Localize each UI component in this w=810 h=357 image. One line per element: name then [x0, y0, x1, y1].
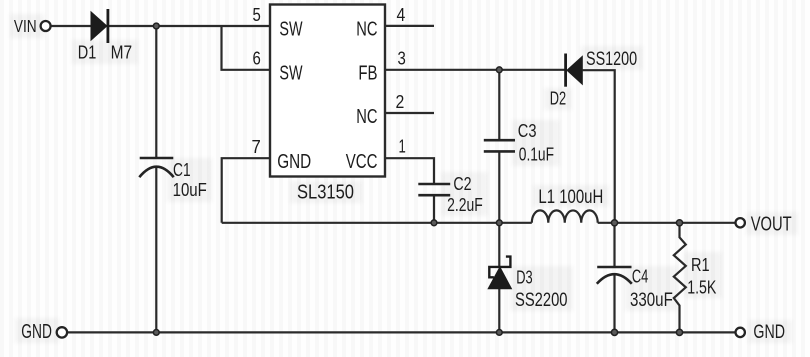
svg-text:GND: GND	[277, 151, 311, 173]
svg-text:SL3150: SL3150	[297, 181, 354, 204]
svg-text:D3: D3	[516, 267, 532, 288]
svg-text:C4: C4	[632, 266, 648, 287]
svg-text:D2: D2	[550, 88, 566, 109]
svg-text:5: 5	[253, 5, 261, 25]
svg-text:SS2200: SS2200	[515, 289, 568, 311]
svg-text:VCC: VCC	[346, 151, 378, 173]
svg-text:NC: NC	[356, 19, 377, 41]
svg-text:SS1200: SS1200	[586, 48, 637, 70]
svg-text:C2: C2	[453, 173, 471, 194]
svg-text:M7: M7	[111, 42, 133, 63]
svg-text:4: 4	[397, 5, 406, 25]
svg-text:C1: C1	[173, 159, 191, 180]
svg-text:C3: C3	[518, 120, 537, 141]
svg-text:L1 100uH: L1 100uH	[538, 187, 603, 208]
svg-text:R1: R1	[691, 254, 710, 275]
svg-text:SW: SW	[279, 62, 302, 84]
svg-text:10uF: 10uF	[173, 179, 207, 200]
svg-text:330uF: 330uF	[630, 289, 673, 311]
svg-text:VIN: VIN	[14, 16, 37, 36]
svg-text:FB: FB	[358, 62, 377, 84]
svg-text:D1: D1	[78, 42, 97, 63]
svg-text:GND: GND	[21, 321, 52, 343]
svg-text:0.1uF: 0.1uF	[519, 144, 554, 165]
svg-text:2.2uF: 2.2uF	[447, 194, 483, 215]
svg-text:3: 3	[398, 48, 406, 68]
svg-text:6: 6	[253, 48, 261, 68]
svg-text:SW: SW	[279, 19, 302, 41]
svg-text:VOUT: VOUT	[751, 213, 792, 236]
svg-text:7: 7	[252, 137, 261, 157]
svg-text:NC: NC	[356, 106, 377, 128]
svg-text:2: 2	[396, 92, 405, 112]
svg-text:1: 1	[399, 137, 406, 157]
svg-text:1.5K: 1.5K	[687, 276, 717, 297]
svg-text:GND: GND	[753, 321, 785, 343]
